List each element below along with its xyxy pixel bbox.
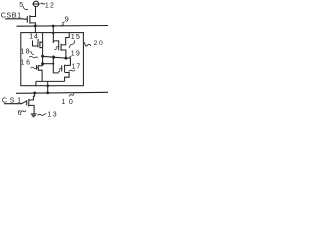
- wire: stub through box bottom: [47, 81, 49, 93]
- lead wave to node: [29, 56, 38, 57]
- junction blob on top edge: [52, 32, 54, 34]
- underline of CSB1 / gate wire: [5, 18, 27, 21]
- wire: top rail: [17, 25, 109, 28]
- junction dot I (top rail): [52, 25, 55, 28]
- svg-text:10: 10: [61, 99, 76, 106]
- transistor Q5 source lead: [65, 73, 70, 82]
- transistor Q4 gate curl: [54, 47, 58, 50]
- transistor Q6 source lead: [29, 105, 34, 113]
- wire: cross node lower: [43, 63, 54, 65]
- block box: [21, 33, 84, 86]
- lead tilde for 20: [85, 42, 91, 46]
- lead tilde for 10: [69, 94, 74, 97]
- wire: stub to box bottom left: [35, 81, 37, 85]
- svg-text:17: 17: [72, 62, 82, 71]
- junction dot C: [52, 56, 55, 59]
- transistor Q3 channel bar: [37, 65, 39, 71]
- junction blob on centre wire: [52, 63, 54, 65]
- svg-text:13: 13: [47, 111, 58, 118]
- wire from node down to Q5 region: [53, 55, 59, 73]
- wire: left bus: [42, 33, 44, 66]
- svg-text:9: 9: [65, 15, 69, 24]
- junction dot D: [64, 57, 67, 60]
- wire: bottom rail: [16, 92, 108, 93]
- transistor Q6 gate bar: [26, 100, 28, 105]
- lead tilde for 13: [38, 114, 47, 116]
- transistor Q3 source lead: [38, 70, 42, 81]
- lead line from 5: [23, 6, 28, 9]
- junction dot E: [46, 85, 49, 88]
- lead tilde for 17: [69, 70, 75, 71]
- svg-text:5: 5: [19, 2, 23, 9]
- transistor Q2 gate routing: [33, 41, 38, 47]
- svg-text:16: 16: [21, 60, 32, 67]
- transistor Q5 gate bar: [61, 65, 63, 71]
- wire: cross node upper: [43, 56, 66, 58]
- junction dot B1: [41, 55, 44, 58]
- junction dot B2: [41, 62, 44, 65]
- transistor Q6 channel bar: [28, 99, 30, 107]
- wire jog to transistor Q4 gate: [53, 41, 58, 45]
- transistor Q5 channel bar: [64, 65, 66, 73]
- junction dot A: [34, 25, 37, 28]
- transistor Q2 channel bar: [39, 41, 41, 48]
- transistor Q2 drain lead: [40, 41, 43, 43]
- svg-text:12: 12: [45, 2, 55, 9]
- transistor Q2 source lead: [40, 47, 43, 49]
- transistor Q5 drain lead: [65, 58, 71, 65]
- transistor Q3 gate bar: [36, 65, 38, 69]
- svg-text:19: 19: [71, 50, 81, 57]
- lead tilde for 9: [61, 22, 65, 26]
- lead tilde for 18: [30, 52, 34, 55]
- transistor Q6 drain lead: [29, 93, 35, 100]
- junction dot G: [46, 91, 49, 94]
- junction dot H: [33, 92, 36, 95]
- svg-text:6: 6: [18, 110, 22, 117]
- transistor Q1 drain lead: [30, 7, 36, 17]
- transistor Q4 gate bar: [58, 44, 60, 50]
- svg-text:14: 14: [29, 31, 39, 40]
- wire from rail dot A into box: [34, 26, 36, 33]
- transistor Q4 source lead: [61, 33, 69, 45]
- lead tilde for 12: [41, 3, 45, 4]
- pad terminal (circle with bar): [33, 1, 38, 6]
- transistor Q4 channel bar: [60, 44, 62, 51]
- ground symbol: [31, 113, 37, 115]
- wire under 14 to transistor Q2 gate: [37, 39, 39, 42]
- transistor Q4 drain lead: [61, 50, 66, 58]
- lead wave for 16: [31, 67, 39, 68]
- lead curl for 19: [70, 56, 71, 58]
- svg-text:20: 20: [94, 40, 105, 47]
- transistor Q5 gate curl: [58, 68, 62, 72]
- wire: bottom common node: [36, 80, 65, 82]
- svg-text:15: 15: [71, 32, 81, 41]
- lead tilde for 6: [21, 111, 26, 113]
- lead curl for 15: [69, 40, 75, 48]
- transistor Q2 gate bar: [37, 42, 39, 48]
- transistor Q1 channel bar: [29, 15, 31, 23]
- transistor Q1 source lead: [30, 23, 36, 26]
- transistor Q1 gate bar: [26, 16, 28, 23]
- svg-text:18: 18: [20, 48, 31, 55]
- transistor Q3 drain lead: [38, 65, 42, 67]
- underline of CS1 / gate wire: [4, 101, 27, 104]
- wire from rail into box centre: [52, 26, 54, 43]
